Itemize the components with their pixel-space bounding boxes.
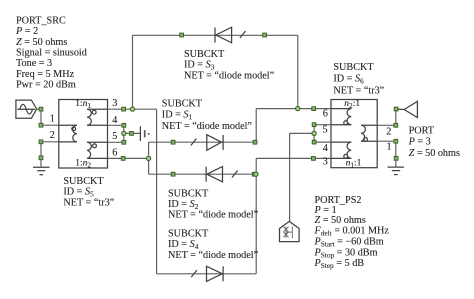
PORT_PS2 text block — [314, 195, 390, 270]
diode S3 — [215, 27, 232, 43]
svg-text:Z = 50 ohms: Z = 50 ohms — [16, 37, 67, 48]
ground (left) — [33, 167, 50, 175]
svg-text:Z = 50 ohms: Z = 50 ohms — [315, 215, 366, 226]
svg-text:SUBCKT: SUBCKT — [63, 176, 104, 187]
pin square: PORT pin — [394, 107, 398, 111]
wire pin 2 to ground — [41, 141, 59, 143]
svg-text:6: 6 — [112, 148, 117, 159]
svg-text:Signal = sinusoid: Signal = sinusoid — [16, 48, 87, 59]
svg-text:SUBCKT: SUBCKT — [168, 189, 209, 200]
diode S2 — [206, 167, 222, 182]
pin-1 slash S4 — [191, 270, 197, 277]
wire S1 up — [255, 109, 257, 143]
svg-text:ID = S6: ID = S6 — [333, 74, 364, 86]
U1 primary winding — [59, 125, 77, 142]
U1 pin number labels — [50, 98, 118, 159]
SUBCKT S1 text block — [162, 99, 253, 132]
pin square: right ground pin — [394, 156, 398, 160]
pin square: U1 pin 1 — [39, 123, 43, 127]
junction node B — [146, 156, 150, 160]
svg-text:1:n1: 1:n1 — [75, 99, 91, 110]
SUBCKT S4 text block — [168, 228, 259, 260]
svg-text:SUBCKT: SUBCKT — [184, 49, 225, 60]
svg-text:1:n2: 1:n2 — [75, 159, 91, 170]
pin-1 slash S2 — [232, 171, 238, 178]
svg-text:PORT_SRC: PORT_SRC — [16, 15, 66, 26]
pin square: left ground pin — [39, 156, 43, 160]
U2 primary winding (pins 2-1) — [361, 125, 377, 141]
wire center tap right — [313, 125, 315, 142]
pin square: C1 pin — [130, 132, 134, 136]
pin square: source pin — [39, 107, 43, 111]
wire center tap to PS2 — [290, 132, 315, 134]
svg-text:6: 6 — [323, 109, 328, 120]
wire pin 3 node A — [108, 108, 157, 110]
PORT_SRC parameter text block — [15, 15, 87, 90]
svg-text:ID = S1: ID = S1 — [162, 110, 193, 122]
svg-text:Freq = 5 MHz: Freq = 5 MHz — [16, 69, 75, 80]
wire pin 6 node B — [108, 157, 149, 159]
wire node B vertical — [148, 142, 150, 174]
wire S4 up node D — [255, 158, 257, 273]
PORT flag symbol — [396, 101, 418, 117]
wire S2 row — [149, 173, 256, 175]
transformer U1 (SUBCKT S5) box — [59, 100, 108, 169]
pin square: U2 pin 4 — [312, 140, 316, 144]
svg-text:NET = “diode model”: NET = “diode model” — [168, 210, 259, 221]
svg-text:SUBCKT: SUBCKT — [168, 228, 209, 239]
SUBCKT S3 text block — [184, 49, 275, 82]
svg-text:n1:1: n1:1 — [346, 159, 362, 170]
svg-text:SUBCKT: SUBCKT — [333, 62, 374, 73]
U1 secondary winding 1 (pins 3-4) — [87, 109, 107, 125]
svg-text:4: 4 — [323, 143, 328, 154]
pin square: S2 pin 2 — [252, 172, 256, 176]
wire top row S3 — [133, 34, 298, 36]
svg-text:NET = “diode model”: NET = “diode model” — [184, 70, 275, 81]
svg-text:P = 3: P = 3 — [408, 137, 431, 148]
ground (right) — [388, 167, 405, 175]
pin square: U2 pin 2 — [394, 123, 398, 127]
wire node D to pin 3 — [256, 157, 331, 159]
wire pin 4 — [108, 124, 124, 126]
svg-text:PORT: PORT — [409, 126, 435, 137]
svg-text:SUBCKT: SUBCKT — [162, 99, 203, 110]
pin square: S3 pin 1 — [180, 33, 184, 37]
wire center tap to capacitor — [124, 132, 141, 134]
wire center tap left — [123, 125, 125, 142]
svg-text:2: 2 — [50, 130, 55, 141]
wire pin 2 to PORT — [377, 124, 396, 126]
pin square: U1 pin 4 — [122, 123, 126, 127]
wire S1 row — [149, 141, 257, 143]
svg-text:Pwr = 20 dBm: Pwr = 20 dBm — [16, 80, 76, 91]
U2 pin number labels — [322, 109, 391, 168]
svg-text:2: 2 — [386, 127, 391, 138]
pin square: S3 pin 2 — [263, 33, 267, 37]
junction node D — [254, 172, 258, 176]
svg-text:4: 4 — [112, 115, 117, 126]
junction center tap left — [122, 131, 126, 135]
junction center tap right — [312, 131, 316, 135]
SUBCKT S6 text block — [333, 62, 384, 96]
wire S3 down to node C — [297, 35, 299, 108]
pin square: U2 pin 6 — [312, 107, 316, 111]
pin square: U1 pin 5 — [122, 140, 126, 144]
svg-text:NET = “tr3”: NET = “tr3” — [333, 85, 384, 96]
junction node A — [130, 107, 134, 111]
svg-text:5: 5 — [112, 131, 117, 142]
svg-text:Tone = 3: Tone = 3 — [16, 58, 52, 69]
capacitor plates — [140, 126, 149, 141]
SUBCKT S2 text block — [168, 189, 259, 221]
pin square: U1 pin 3 — [122, 107, 126, 111]
pin square: U2 pin 5 — [312, 123, 316, 127]
svg-text:NET = “diode model”: NET = “diode model” — [162, 121, 253, 132]
svg-text:1: 1 — [386, 142, 391, 153]
pin square: U2 pin 1 — [394, 139, 398, 143]
svg-text:Z = 50 ohms: Z = 50 ohms — [409, 148, 460, 159]
PORT text block — [408, 126, 460, 159]
transformer U2 (SUBCKT S6) box — [331, 100, 377, 168]
pin square: U1 pin 2 — [39, 140, 43, 144]
wire pin 5 — [108, 141, 124, 143]
diode S1 — [207, 135, 223, 151]
svg-text:NET = “diode model”: NET = “diode model” — [168, 250, 259, 261]
wire node A up to S3 — [132, 35, 134, 109]
wire pin 5 right xfmr — [314, 124, 331, 126]
U1 secondary winding 2 (pins 5-6) — [87, 142, 107, 158]
wire pin 4 right xfmr — [314, 141, 331, 143]
pin square: U2 pin 3 — [312, 157, 316, 161]
pin square: S1 pin 2 — [253, 140, 257, 144]
pin square: S2 pin 1 — [171, 172, 175, 176]
U2 secondary winding 2 (pins 4-3) — [331, 142, 351, 158]
pin-1 slash S3 — [240, 31, 246, 38]
SUBCKT S5 text block — [63, 176, 114, 209]
wire source to pin 1 — [37, 108, 41, 110]
svg-text:1: 1 — [50, 114, 55, 125]
wire S4 row — [157, 273, 257, 275]
pin-1 slash S1 — [191, 139, 197, 146]
svg-text:NET = “tr3”: NET = “tr3” — [63, 198, 114, 209]
svg-text:5: 5 — [322, 124, 327, 135]
svg-text:3: 3 — [112, 98, 117, 109]
wire to node C and pin 6 — [256, 108, 331, 110]
junction node C — [296, 106, 300, 110]
wire pin 1 to ground — [377, 140, 396, 142]
svg-text:3: 3 — [323, 156, 328, 167]
pin square: U1 pin 6 — [121, 157, 125, 161]
pin square: S1 pin 1 — [171, 140, 175, 144]
diode S4 — [207, 266, 224, 281]
wire node A down to S4 — [156, 109, 158, 274]
PORT_PS2 house symbol — [280, 221, 300, 241]
source PORT_SRC symbol — [16, 100, 37, 118]
svg-text:n2:1: n2:1 — [344, 99, 360, 110]
U2 secondary winding 1 (pins 6-5) — [331, 109, 351, 125]
svg-text:P = 2: P = 2 — [15, 26, 38, 37]
